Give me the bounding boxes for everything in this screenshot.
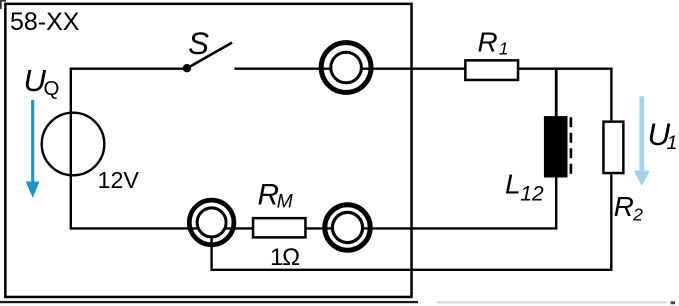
scan artifact: bottom light gray line right [437, 301, 667, 303]
terminal top (inner) [331, 52, 362, 83]
resistor R1 body [465, 60, 518, 80]
arrow UQ (blue) head [26, 182, 40, 198]
svg-text:1: 1 [499, 39, 509, 59]
wire bottom: left terminal down, across to R2 bottom [212, 174, 612, 269]
terminal bottom-right (outer) [325, 205, 370, 250]
terminal bottom-left (outer) [189, 200, 234, 245]
svg-text:Q: Q [44, 77, 60, 100]
scan artifact: bottom-right speck [671, 301, 676, 304]
svg-text:L: L [505, 168, 521, 200]
svg-text:12: 12 [520, 182, 544, 205]
arrow U1 (light blue) head [634, 171, 650, 186]
terminal bottom-right (inner) [332, 212, 362, 242]
wire top-left loop: top run to switch, left vertical, bottom run to L12 bottom [71, 69, 556, 229]
svg-text:1: 1 [667, 132, 678, 154]
inductor L12 core dashed line [570, 117, 573, 175]
terminal bottom-left (inner) [197, 208, 226, 237]
svg-text:R: R [258, 178, 280, 211]
resistor R2 body [603, 122, 623, 173]
svg-text:12V: 12V [98, 167, 140, 193]
switch S blade [187, 43, 232, 69]
svg-text:S: S [188, 25, 209, 61]
enclosure box 58-XX [5, 4, 411, 297]
svg-text:1Ω: 1Ω [270, 244, 299, 271]
scan artifact: bottom dark line [0, 301, 418, 303]
svg-text:R: R [478, 26, 498, 57]
svg-text:58-XX: 58-XX [10, 8, 80, 36]
wire top-right run: switch right to R2 top corner [235, 69, 612, 121]
scan artifact: top-left corner mark [0, 0, 6, 9]
terminal top (outer) [321, 43, 371, 93]
switch S dot [183, 64, 191, 72]
arrow U1 (light blue) line [639, 96, 644, 171]
resistor RM body [253, 218, 305, 237]
svg-text:M: M [277, 192, 293, 213]
arrow UQ (blue) line [31, 100, 34, 182]
inductor L12 body (iron core) [544, 116, 568, 177]
wire junction T to L12 top [555, 69, 558, 117]
voltage source UQ circle [42, 113, 105, 176]
svg-text:2: 2 [632, 205, 643, 225]
svg-text:R: R [614, 191, 634, 222]
